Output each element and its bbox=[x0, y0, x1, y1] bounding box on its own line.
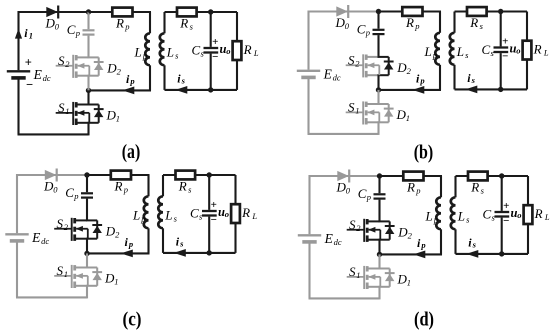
svg-text:p: p bbox=[128, 239, 133, 249]
label is, panel a bbox=[177, 72, 185, 86]
wire: top-left segment with source branch, panel a bbox=[19, 11, 89, 70]
node: top junction, panel a bbox=[86, 9, 91, 14]
capacitor Cs, panel d bbox=[495, 176, 510, 254]
svg-text:L: L bbox=[134, 45, 142, 60]
label S1, panel a bbox=[58, 100, 70, 116]
svg-text:S: S bbox=[348, 52, 355, 67]
capacitor Cs, panel b bbox=[494, 12, 509, 90]
resistor RL (load), panel a bbox=[233, 12, 242, 90]
label S2, panel a bbox=[58, 53, 70, 69]
label Rp, panel d bbox=[406, 179, 421, 195]
label Lp, panel c bbox=[132, 208, 146, 224]
svg-text:C: C bbox=[192, 42, 201, 57]
label Rp, panel b bbox=[405, 15, 420, 31]
node: top junction, panel d bbox=[377, 173, 382, 178]
svg-text:2: 2 bbox=[117, 66, 122, 76]
label D2 (body diode of S2), panel b bbox=[396, 60, 411, 76]
svg-text:+: + bbox=[25, 55, 32, 69]
label E_dc, panel a bbox=[33, 67, 51, 83]
node: output top junction, panel a bbox=[208, 9, 213, 14]
svg-text:dc: dc bbox=[333, 73, 341, 83]
svg-text:o: o bbox=[226, 46, 230, 56]
svg-text:S: S bbox=[348, 99, 355, 114]
svg-text:s: s bbox=[471, 75, 476, 85]
wire: junction to Rp to primary corner, panel d bbox=[380, 175, 443, 177]
svg-text:R: R bbox=[534, 206, 543, 221]
wire: top-left segment with source branch, panel d bbox=[310, 175, 380, 234]
label D1 (body diode of S1), panel b bbox=[396, 107, 411, 123]
inductor Lp, panel d bbox=[436, 176, 441, 254]
svg-text:o: o bbox=[517, 210, 521, 220]
svg-text:p: p bbox=[75, 28, 80, 38]
node: output bottom junction, panel d bbox=[499, 251, 504, 256]
label Rp, panel a bbox=[115, 15, 130, 31]
label uo (output voltage), panel a bbox=[220, 42, 231, 56]
inductor Lp, panel a bbox=[145, 12, 150, 90]
svg-text:1: 1 bbox=[407, 277, 411, 287]
label uo (output voltage), panel c bbox=[218, 205, 229, 219]
diode D0, panel a bbox=[46, 6, 58, 19]
label Cs, panel b bbox=[482, 42, 495, 58]
current arrow is, panel b bbox=[465, 86, 477, 94]
svg-text:0: 0 bbox=[55, 22, 60, 32]
wire: junction to Rp to primary corner, panel c bbox=[87, 174, 150, 176]
svg-text:E: E bbox=[33, 67, 43, 82]
svg-text:R: R bbox=[533, 42, 542, 57]
label Cp, panel a bbox=[67, 22, 80, 38]
node: output bottom junction, panel c bbox=[207, 250, 212, 255]
wire: primary return with current ip, panel d bbox=[380, 253, 443, 255]
svg-text:E: E bbox=[324, 231, 334, 246]
svg-text:0: 0 bbox=[346, 186, 351, 196]
svg-text:C: C bbox=[483, 206, 492, 221]
label Rs, panel d bbox=[470, 179, 484, 195]
label is, panel c bbox=[176, 235, 184, 249]
svg-text:R: R bbox=[115, 15, 124, 30]
svg-text:2: 2 bbox=[65, 59, 70, 69]
label Cp, panel c bbox=[65, 185, 78, 201]
resistor Rs, panel d bbox=[468, 172, 488, 181]
output polarity +, panel a bbox=[212, 36, 218, 48]
wire: battery negative to bottom rail, panel c bbox=[16, 243, 87, 298]
output polarity +, panel b bbox=[502, 36, 508, 48]
svg-text:s: s bbox=[179, 239, 184, 249]
label RL, panel a bbox=[243, 42, 259, 58]
wire: S1 source to bottom rail, panel b bbox=[377, 122, 379, 135]
svg-text:S: S bbox=[58, 53, 65, 68]
label RL, panel d bbox=[534, 206, 550, 222]
transistor S1 (MOSFET), panel a bbox=[56, 102, 104, 125]
label Rs, panel a bbox=[179, 15, 193, 31]
svg-text:1: 1 bbox=[29, 30, 33, 40]
svg-text:+: + bbox=[212, 36, 218, 48]
svg-text:R: R bbox=[178, 178, 187, 193]
label Ls, panel c bbox=[164, 208, 177, 224]
battery E_dc, panel b bbox=[297, 71, 320, 78]
svg-text:R: R bbox=[405, 15, 414, 30]
wire: secondary bottom rail with current is, panel d bbox=[456, 253, 529, 255]
output polarity -, panel c bbox=[211, 214, 217, 226]
svg-text:+: + bbox=[503, 200, 509, 212]
output polarity +, panel d bbox=[503, 200, 509, 212]
inductor Ls, panel b bbox=[450, 12, 455, 90]
transistor S1 (MOSFET), panel c bbox=[54, 265, 102, 288]
label is, panel b bbox=[467, 71, 475, 85]
label D1 (body diode of S1), panel a bbox=[106, 107, 121, 123]
output polarity -, panel a bbox=[212, 51, 218, 63]
svg-text:R: R bbox=[114, 178, 123, 193]
diode D0, panel c bbox=[45, 169, 57, 182]
svg-text:L: L bbox=[132, 208, 140, 223]
svg-text:p: p bbox=[414, 21, 419, 31]
svg-text:2: 2 bbox=[355, 58, 360, 68]
node: output top junction, panel c bbox=[207, 172, 212, 177]
label D0, panel c bbox=[43, 179, 58, 195]
svg-text:R: R bbox=[470, 179, 479, 194]
label Cs, panel a bbox=[192, 42, 205, 58]
node: output bottom junction, panel b bbox=[498, 87, 503, 92]
wire: S1 source to bottom rail, panel d bbox=[378, 287, 380, 300]
wire: primary return with current ip, panel b bbox=[379, 89, 442, 91]
wire: S1 source to bottom rail, panel c bbox=[86, 286, 88, 299]
svg-text:dc: dc bbox=[41, 236, 49, 246]
label RL, panel b bbox=[533, 42, 549, 58]
svg-text:(c): (c) bbox=[123, 309, 142, 330]
resistor Rp, panel a bbox=[112, 8, 132, 17]
resistor RL (load), panel d bbox=[524, 176, 533, 254]
svg-text:(b): (b) bbox=[414, 143, 434, 164]
wire: junction to S1 drain, panel b bbox=[377, 90, 379, 104]
wire: S1 source to bottom rail, panel a bbox=[87, 123, 89, 136]
current arrow is, panel c bbox=[174, 249, 186, 257]
resistor RL (load), panel b bbox=[523, 12, 532, 90]
label Cs, panel d bbox=[483, 206, 496, 222]
capacitor Cs, panel c bbox=[202, 175, 217, 253]
svg-text:p: p bbox=[124, 21, 129, 31]
svg-text:dc: dc bbox=[43, 73, 51, 83]
label D2 (body diode of S2), panel d bbox=[397, 224, 412, 240]
label D1 (body diode of S1), panel c bbox=[104, 270, 119, 286]
svg-text:C: C bbox=[190, 205, 199, 220]
battery E_dc, panel c bbox=[5, 234, 28, 241]
svg-text:C: C bbox=[482, 42, 491, 57]
svg-text:p: p bbox=[419, 76, 424, 86]
svg-text:R: R bbox=[406, 179, 415, 194]
label uo (output voltage), panel b bbox=[510, 42, 521, 56]
svg-text:p: p bbox=[142, 51, 147, 61]
svg-text:p: p bbox=[129, 76, 134, 86]
svg-text:+: + bbox=[211, 199, 217, 211]
svg-text:S: S bbox=[57, 263, 64, 278]
svg-text:p: p bbox=[433, 215, 438, 225]
svg-text:L: L bbox=[544, 212, 550, 222]
inductor Ls, panel a bbox=[160, 12, 165, 90]
battery polarity - bbox=[26, 78, 33, 92]
svg-text:2: 2 bbox=[64, 222, 69, 232]
label Rs, panel c bbox=[178, 178, 192, 194]
wire: junction to Rp to primary corner, panel a bbox=[89, 11, 152, 13]
node: top junction, panel c bbox=[84, 172, 89, 177]
resistor Rs, panel a bbox=[177, 8, 197, 17]
resistor Rp, panel c bbox=[111, 171, 131, 180]
svg-text:p: p bbox=[415, 185, 420, 195]
battery polarity + bbox=[25, 55, 32, 69]
svg-text:1: 1 bbox=[355, 105, 359, 115]
svg-text:C: C bbox=[357, 22, 366, 37]
wire: junction to S1 drain, panel c bbox=[86, 253, 88, 267]
label S2, panel d bbox=[349, 217, 361, 233]
svg-text:(a): (a) bbox=[122, 142, 141, 163]
resistor RL (load), panel c bbox=[231, 175, 240, 253]
label D0, panel d bbox=[336, 180, 351, 196]
svg-text:−: − bbox=[211, 214, 217, 226]
svg-text:o: o bbox=[225, 209, 229, 219]
svg-text:L: L bbox=[164, 208, 172, 223]
panel label (a) bbox=[122, 142, 141, 163]
label Lp, panel a bbox=[134, 45, 148, 61]
capacitor Cp, panel a bbox=[83, 12, 95, 57]
label Cs, panel c bbox=[190, 205, 203, 221]
label S1, panel d bbox=[349, 264, 361, 280]
label Ls, panel b bbox=[456, 44, 469, 60]
label E_dc, panel b bbox=[323, 67, 341, 83]
inductor Ls, panel d bbox=[451, 176, 456, 254]
wire: S2 source to junction, panel d bbox=[378, 240, 380, 255]
label is, panel d bbox=[468, 236, 476, 250]
wire: junction to Rp to primary corner, panel b bbox=[379, 10, 442, 12]
node: primary return junction, panel b bbox=[376, 87, 381, 92]
label ip, panel b bbox=[416, 72, 425, 86]
svg-text:L: L bbox=[251, 211, 257, 221]
label Lp, panel b bbox=[424, 44, 438, 60]
current arrow ip, panel a bbox=[122, 87, 134, 95]
svg-text:S: S bbox=[349, 217, 356, 232]
node: output top junction, panel d bbox=[499, 173, 504, 178]
svg-text:L: L bbox=[166, 45, 174, 60]
transistor S2 (MOSFET), panel a bbox=[56, 55, 104, 78]
svg-text:L: L bbox=[457, 209, 465, 224]
svg-text:−: − bbox=[503, 215, 509, 227]
diode D0, panel b bbox=[336, 5, 348, 18]
transistor S2 (MOSFET), panel d bbox=[347, 219, 395, 242]
label S1, panel c bbox=[57, 263, 69, 279]
wire: top-left segment with source branch, panel b bbox=[309, 11, 379, 70]
transistor S1 (MOSFET), panel b bbox=[346, 101, 394, 124]
svg-text:C: C bbox=[65, 185, 74, 200]
svg-text:0: 0 bbox=[53, 185, 58, 195]
svg-text:2: 2 bbox=[408, 230, 413, 240]
svg-text:R: R bbox=[243, 42, 252, 57]
label Ls, panel a bbox=[166, 45, 179, 61]
label D0, panel b bbox=[335, 15, 350, 31]
diode D0, panel d bbox=[337, 170, 349, 183]
inductor Lp, panel b bbox=[435, 12, 440, 90]
transistor S1 (MOSFET), panel d bbox=[347, 266, 395, 289]
resistor Rp, panel d bbox=[403, 172, 423, 181]
wire: secondary top rail, panel a bbox=[165, 11, 238, 13]
battery E_dc, panel a bbox=[7, 71, 30, 78]
wire: secondary bottom rail with current is, panel c bbox=[163, 252, 236, 254]
svg-text:R: R bbox=[469, 15, 478, 30]
label Ls, panel d bbox=[457, 209, 470, 225]
svg-text:2: 2 bbox=[407, 66, 412, 76]
inductor Lp, panel c bbox=[144, 175, 149, 253]
svg-text:1: 1 bbox=[356, 270, 360, 280]
capacitor Cs, panel a bbox=[204, 12, 219, 90]
svg-text:L: L bbox=[424, 44, 432, 59]
wire: S2 source to junction, panel c bbox=[86, 239, 88, 254]
wire: primary return with current ip, panel c bbox=[87, 252, 150, 254]
resistor Rs, panel b bbox=[467, 7, 487, 16]
label uo (output voltage), panel d bbox=[511, 206, 522, 220]
wire: secondary top rail, panel c bbox=[163, 174, 236, 176]
label ip, panel d bbox=[417, 236, 426, 250]
current arrow is, panel d bbox=[466, 250, 478, 258]
label i1 bbox=[24, 26, 33, 40]
capacitor Cp, panel d bbox=[374, 176, 386, 221]
label Cp, panel b bbox=[357, 22, 370, 38]
label ip, panel a bbox=[126, 72, 135, 86]
label RL, panel c bbox=[241, 205, 257, 221]
label E_dc, panel d bbox=[324, 231, 342, 247]
svg-text:p: p bbox=[420, 240, 425, 250]
current arrow ip, panel d bbox=[413, 251, 425, 259]
svg-text:L: L bbox=[543, 48, 549, 58]
svg-text:−: − bbox=[26, 78, 33, 92]
svg-text:p: p bbox=[365, 28, 370, 38]
svg-text:o: o bbox=[516, 46, 520, 56]
capacitor Cp, panel b bbox=[373, 12, 385, 57]
svg-text:+: + bbox=[502, 36, 508, 48]
node: output top junction, panel b bbox=[498, 9, 503, 14]
wire: top-left segment with source branch, panel c bbox=[17, 174, 87, 233]
output polarity -, panel b bbox=[502, 51, 508, 63]
output polarity +, panel c bbox=[211, 199, 217, 211]
svg-text:E: E bbox=[323, 67, 333, 82]
wire: battery negative to bottom rail, panel b bbox=[308, 79, 379, 134]
svg-text:p: p bbox=[73, 191, 78, 201]
svg-text:−: − bbox=[212, 51, 218, 63]
svg-text:L: L bbox=[456, 44, 464, 59]
wire: junction to S1 drain, panel d bbox=[378, 254, 380, 268]
svg-text:(d): (d) bbox=[414, 309, 434, 330]
label D0, panel a bbox=[45, 16, 60, 32]
label S2, panel c bbox=[57, 216, 69, 232]
node: top junction, panel b bbox=[376, 9, 381, 14]
label D2 (body diode of S2), panel a bbox=[106, 60, 121, 76]
label Lp, panel d bbox=[425, 209, 439, 225]
svg-text:p: p bbox=[140, 214, 145, 224]
wire: S2 source to junction, panel a bbox=[87, 76, 89, 91]
svg-text:S: S bbox=[57, 216, 64, 231]
svg-text:p: p bbox=[123, 184, 128, 194]
wire: secondary bottom rail with current is, panel a bbox=[165, 89, 238, 91]
wire: battery negative to bottom rail, panel a bbox=[18, 80, 89, 135]
svg-text:p: p bbox=[432, 50, 437, 60]
wire: junction to S1 drain, panel a bbox=[87, 90, 89, 104]
svg-text:C: C bbox=[67, 22, 76, 37]
svg-text:p: p bbox=[366, 192, 371, 202]
svg-text:S: S bbox=[349, 264, 356, 279]
svg-text:L: L bbox=[425, 209, 433, 224]
panel label (c) bbox=[123, 309, 142, 330]
svg-text:R: R bbox=[179, 15, 188, 30]
label S2, panel b bbox=[348, 52, 360, 68]
svg-text:C: C bbox=[358, 186, 367, 201]
current arrow ip, panel c bbox=[121, 250, 133, 258]
label Cp, panel d bbox=[358, 186, 371, 202]
transistor S2 (MOSFET), panel b bbox=[346, 54, 394, 77]
svg-text:S: S bbox=[58, 100, 65, 115]
label Rp, panel c bbox=[114, 178, 129, 194]
wire: secondary top rail, panel d bbox=[456, 175, 529, 177]
inductor Ls, panel c bbox=[158, 175, 163, 253]
svg-text:1: 1 bbox=[406, 113, 410, 123]
svg-text:1: 1 bbox=[116, 113, 120, 123]
svg-text:1: 1 bbox=[64, 269, 68, 279]
resistor Rp, panel b bbox=[402, 7, 422, 16]
resistor Rs, panel c bbox=[176, 171, 196, 180]
svg-text:R: R bbox=[241, 205, 250, 220]
svg-text:1: 1 bbox=[65, 106, 69, 116]
wire: secondary bottom rail with current is, panel b bbox=[455, 88, 528, 90]
svg-text:s: s bbox=[181, 76, 186, 86]
wire: primary return with current ip, panel a bbox=[89, 89, 152, 91]
label ip, panel c bbox=[125, 235, 134, 249]
svg-text:0: 0 bbox=[345, 21, 350, 31]
svg-text:1: 1 bbox=[114, 276, 118, 286]
current arrow i1 bbox=[15, 29, 22, 39]
output polarity -, panel d bbox=[503, 215, 509, 227]
panel label (b) bbox=[414, 143, 434, 164]
wire: secondary top rail, panel b bbox=[455, 10, 528, 12]
svg-text:L: L bbox=[253, 48, 259, 58]
svg-text:s: s bbox=[472, 240, 477, 250]
svg-text:−: − bbox=[502, 51, 508, 63]
label S1, panel b bbox=[348, 99, 360, 115]
label D1 (body diode of S1), panel d bbox=[397, 271, 412, 287]
node: output bottom junction, panel a bbox=[208, 87, 213, 92]
transistor S2 (MOSFET), panel c bbox=[54, 218, 102, 241]
node: primary return junction, panel d bbox=[377, 252, 382, 257]
svg-text:dc: dc bbox=[334, 237, 342, 247]
wire: battery negative to bottom rail, panel d bbox=[309, 244, 380, 299]
label Rs, panel b bbox=[469, 15, 483, 31]
node: primary return junction, panel c bbox=[84, 251, 89, 256]
label D2 (body diode of S2), panel c bbox=[105, 223, 120, 239]
panel label (d) bbox=[414, 309, 434, 330]
current arrow ip, panel b bbox=[412, 86, 424, 94]
svg-text:E: E bbox=[31, 230, 41, 245]
svg-text:2: 2 bbox=[356, 223, 361, 233]
node: primary return junction, panel a bbox=[86, 88, 91, 93]
current arrow is, panel a bbox=[175, 86, 187, 94]
label E_dc, panel c bbox=[31, 230, 49, 246]
battery E_dc, panel d bbox=[298, 235, 321, 242]
capacitor Cp, panel c bbox=[81, 175, 93, 220]
wire: S2 source to junction, panel b bbox=[377, 75, 379, 90]
svg-text:2: 2 bbox=[115, 229, 120, 239]
